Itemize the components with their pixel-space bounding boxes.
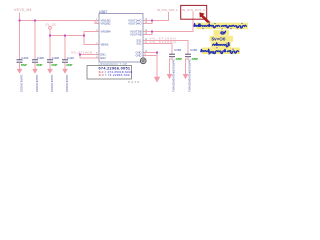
svg-text:DNP: DNP bbox=[52, 63, 58, 67]
svg-text:10uF/6.3V/0201: 10uF/6.3V/0201 bbox=[35, 75, 38, 93]
svg-text:VSYS_M4: VSYS_M4 bbox=[14, 8, 32, 12]
svg-text:VBIAS: VBIAS bbox=[101, 43, 109, 47]
svg-text:5V_S5: 5V_S5 bbox=[46, 22, 56, 26]
svg-text:C408: C408 bbox=[52, 56, 60, 60]
svg-text:VO_ST2#ON: VO_ST2#ON bbox=[150, 40, 176, 44]
svg-text:IN_SYS_OUT_2: IN_SYS_OUT_2 bbox=[182, 8, 205, 12]
svg-text:VOUT4/B: VOUT4/B bbox=[130, 33, 142, 37]
svg-text:C366: C366 bbox=[190, 48, 198, 52]
svg-text:10uF/6.3V/0201: 10uF/6.3V/0201 bbox=[65, 75, 68, 93]
svg-text:U367: U367 bbox=[99, 10, 107, 14]
svg-text:VIN3/B4: VIN3/B4 bbox=[101, 30, 112, 34]
svg-text:10uF/16V/0402/X5R/20%/A1: 10uF/16V/0402/X5R/20%/A1 bbox=[172, 59, 176, 93]
svg-text:VIN2/B2: VIN2/B2 bbox=[101, 22, 112, 26]
svg-text:C404: C404 bbox=[21, 56, 29, 60]
svg-text:DNP: DNP bbox=[176, 57, 182, 61]
svg-text:3rd = 74.22966.S00: 3rd = 74.22966.S00 bbox=[99, 73, 130, 77]
svg-text:DNP: DNP bbox=[21, 63, 27, 67]
svg-text:C410: C410 bbox=[67, 56, 75, 60]
svg-text:UPCM6800X T OP: UPCM6800X T OP bbox=[99, 62, 128, 66]
svg-text:EN1: EN1 bbox=[101, 53, 107, 57]
svg-text:10uF/6.3V/0201: 10uF/6.3V/0201 bbox=[50, 75, 53, 93]
svg-text:EN2: EN2 bbox=[101, 56, 107, 60]
svg-text:DNP: DNP bbox=[192, 57, 198, 61]
svg-text:SS2: SS2 bbox=[136, 42, 142, 46]
svg-text:DQ08: DQ08 bbox=[128, 80, 140, 84]
svg-text:VOUT2#/O: VOUT2#/O bbox=[128, 22, 141, 26]
svg-text:DNP: DNP bbox=[67, 63, 73, 67]
svg-text:C365: C365 bbox=[174, 48, 182, 52]
svg-text:DNP: DNP bbox=[37, 63, 43, 67]
svg-text:10uF/6.3V/0201: 10uF/6.3V/0201 bbox=[19, 75, 22, 93]
svg-text:5v=O0: 5v=O0 bbox=[212, 37, 226, 42]
svg-text:IN_SYS_OUT_1: IN_SYS_OUT_1 bbox=[157, 8, 178, 12]
svg-text:GND: GND bbox=[136, 54, 142, 58]
svg-text:10uF/16V/0402/X5R/20%/A1: 10uF/16V/0402/X5R/20%/A1 bbox=[188, 59, 192, 93]
svg-text:C406: C406 bbox=[37, 56, 45, 60]
svg-text:VO_ST1#ON: VO_ST1#ON bbox=[71, 51, 92, 55]
